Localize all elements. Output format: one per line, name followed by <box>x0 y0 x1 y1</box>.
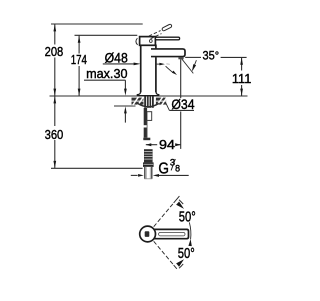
svg-text:360: 360 <box>45 127 64 142</box>
svg-text:50°: 50° <box>178 246 195 262</box>
svg-text:35°: 35° <box>203 49 220 63</box>
svg-text:94: 94 <box>159 137 175 152</box>
svg-text:50°: 50° <box>179 210 196 226</box>
svg-text:8: 8 <box>175 163 180 173</box>
svg-text:Ø34: Ø34 <box>171 97 195 112</box>
svg-text:Ø48: Ø48 <box>105 51 128 66</box>
svg-text:111: 111 <box>232 71 252 86</box>
svg-text:208: 208 <box>45 44 64 59</box>
svg-text:max.30: max.30 <box>86 66 127 81</box>
svg-text:174: 174 <box>71 52 87 67</box>
